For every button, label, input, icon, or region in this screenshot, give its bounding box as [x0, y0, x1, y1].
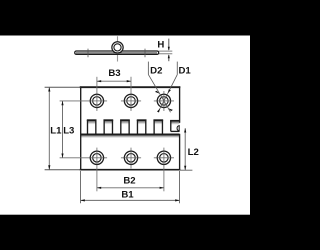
svg-text:B1: B1 — [121, 189, 134, 200]
svg-text:B2: B2 — [123, 175, 135, 186]
svg-text:B3: B3 — [108, 68, 120, 79]
svg-text:D2: D2 — [150, 65, 162, 76]
svg-text:L3: L3 — [63, 125, 74, 136]
svg-text:D1: D1 — [178, 65, 191, 76]
svg-text:L1: L1 — [50, 125, 62, 136]
svg-text:L2: L2 — [188, 147, 199, 158]
svg-text:H: H — [157, 39, 164, 50]
